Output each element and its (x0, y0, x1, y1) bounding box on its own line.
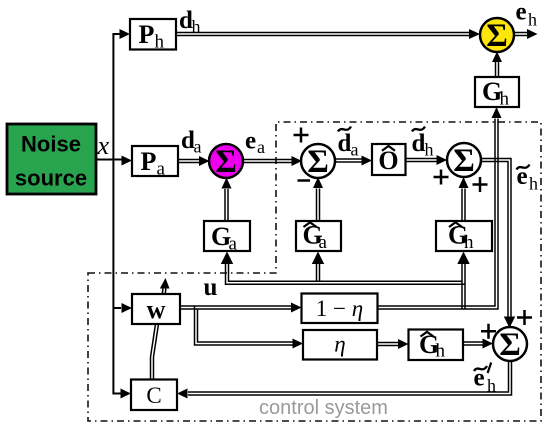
svg-text:e: e (245, 128, 256, 155)
wire e_a (magenta sum to sum 2) (243, 159, 293, 161)
wire riser tap to G-hat_h mid (461, 263, 463, 310)
sign minus at sum 2 (298, 179, 311, 182)
wire x vertical trunk with top branch to P_h (113, 34, 121, 394)
wire e_h output (514, 32, 528, 34)
wire G-hat_h bottom to sum 4 (463, 341, 483, 343)
block G_h top (475, 77, 519, 107)
wire bus riser to G-hat_a (316, 263, 318, 282)
svg-text:a: a (157, 159, 166, 180)
block G-hat_h mid (436, 221, 492, 251)
wire u (w to 1-eta) (180, 305, 291, 307)
wire eta to G-hat_h bottom (377, 342, 399, 344)
wire d_h (P_h to yellow sum) (176, 32, 470, 34)
wire O-hat to sum 3 (406, 158, 438, 160)
svg-text:a: a (351, 140, 359, 160)
svg-text:h: h (425, 140, 434, 160)
wire x branch to C (121, 389, 132, 399)
svg-text:h: h (500, 89, 510, 110)
wire x branch to w (113, 307, 121, 309)
svg-text:1 − η: 1 − η (316, 296, 363, 321)
svg-text:η: η (334, 332, 345, 357)
wire 1-eta to G_h top (378, 119, 496, 307)
summing junction 4 (493, 327, 527, 361)
summing junction 2 (301, 144, 335, 178)
block w (132, 294, 180, 324)
svg-text:d: d (338, 130, 352, 157)
svg-text:h: h (528, 10, 537, 30)
svg-text:h: h (436, 341, 446, 362)
sign plus left of sum 4 (481, 324, 496, 339)
wire u bus with riser to G_a (226, 263, 466, 285)
wire G-hat_a to sum 2 (316, 189, 318, 222)
svg-text:u: u (204, 274, 218, 301)
block G-hat_a (296, 221, 341, 251)
wire sum 4 to C feedback (188, 361, 512, 396)
summing junction 3 (447, 143, 481, 177)
svg-text:Σ: Σ (307, 144, 329, 180)
sign plus left of sum 3 (434, 170, 449, 185)
wire G_h to yellow sum (495, 62, 497, 77)
block P_a (132, 146, 178, 176)
block 1-eta (302, 294, 378, 324)
block P_h (130, 19, 176, 50)
wire x (noise source to junction to P_a) (96, 159, 122, 161)
svg-text:h: h (155, 32, 165, 53)
svg-text:C: C (146, 383, 161, 408)
svg-text:w: w (147, 295, 166, 324)
sign plus top right of sum 4 (517, 310, 532, 325)
block G_a (204, 221, 250, 251)
svg-text:d: d (412, 130, 426, 157)
block O-hat (372, 144, 406, 175)
svg-text:Σ: Σ (486, 18, 508, 54)
wire G_a to magenta sum (224, 189, 226, 221)
noise source box (7, 124, 96, 194)
svg-text:a: a (229, 234, 238, 255)
wire sum2 to O-hat (334, 158, 362, 160)
svg-text:h: h (192, 17, 201, 37)
svg-text:x: x (97, 131, 110, 160)
svg-text:h: h (529, 174, 538, 194)
svg-text:Σ: Σ (499, 327, 521, 363)
svg-text:h: h (464, 232, 474, 253)
sign plus right of sum 3 (473, 177, 488, 192)
svg-text:Σ: Σ (215, 144, 237, 180)
wire G-hat_h mid to sum 3 (461, 189, 463, 222)
summing junction yellow (480, 18, 514, 52)
wire w to C connector (151, 324, 156, 380)
wire u branch to eta (195, 306, 294, 345)
svg-text:a: a (194, 137, 202, 157)
svg-text:control system: control system (259, 397, 388, 419)
block C (131, 380, 177, 411)
svg-text:e: e (516, 0, 527, 26)
control system dash-dot boundary (88, 122, 541, 421)
summing junction magenta (209, 144, 243, 178)
svg-text:a: a (257, 137, 265, 157)
svg-text:O: O (378, 146, 398, 175)
svg-text:source: source (15, 166, 87, 191)
svg-text:Noise: Noise (21, 132, 81, 157)
svg-text:P: P (139, 20, 155, 49)
block G-hat_h bottom (409, 330, 464, 361)
wire d_a (P_a to magenta sum) (178, 159, 200, 161)
svg-text:Σ: Σ (453, 143, 475, 179)
block eta (303, 330, 377, 360)
svg-text:a: a (319, 232, 328, 253)
wire w update arrow (161, 289, 164, 295)
sign plus at sum 2 (294, 128, 309, 143)
svg-text:P: P (141, 147, 157, 176)
wire e-tilde_h (sum3 right, down to sum 4) (481, 159, 511, 318)
